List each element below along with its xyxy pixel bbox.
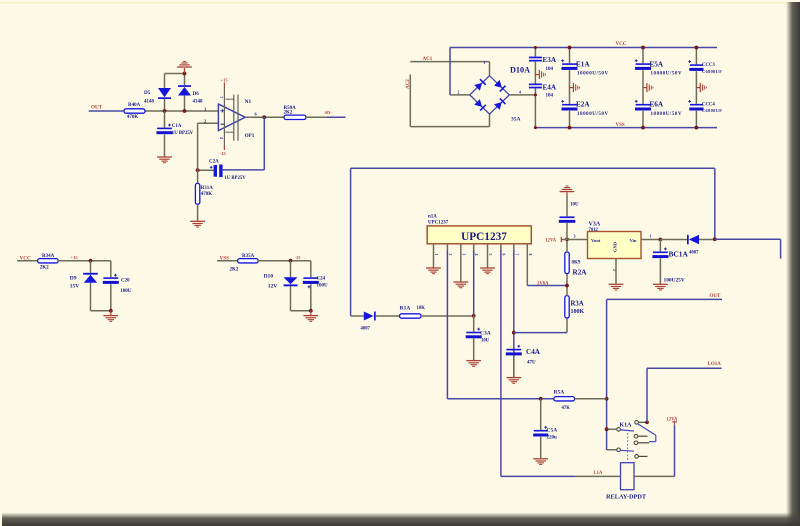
ground below R31A bbox=[190, 221, 205, 227]
svg-text:10000U/50V: 10000U/50V bbox=[577, 72, 609, 77]
svg-text:D6: D6 bbox=[193, 91, 200, 97]
svg-text:D9: D9 bbox=[70, 276, 77, 282]
net label VCC left bbox=[17, 255, 38, 261]
svg-text:GND: GND bbox=[613, 241, 618, 252]
resistor R34A 2K2 bbox=[38, 254, 59, 270]
svg-text:R1A: R1A bbox=[400, 306, 411, 312]
svg-text:220u: 220u bbox=[547, 436, 558, 441]
wire +15 node bbox=[58, 255, 111, 263]
svg-text:R34A: R34A bbox=[42, 254, 55, 259]
ground pin 5 bbox=[480, 250, 495, 274]
svg-text:+15: +15 bbox=[71, 255, 79, 260]
svg-text:C3A: C3A bbox=[480, 330, 491, 336]
svg-text:6: 6 bbox=[501, 254, 505, 256]
svg-text:1: 1 bbox=[484, 61, 486, 65]
svg-text:VSS: VSS bbox=[616, 123, 625, 128]
bridge output wires bbox=[450, 48, 535, 95]
wire coil right to 12VA bbox=[634, 425, 675, 476]
svg-text:10000U/50V: 10000U/50V bbox=[651, 112, 683, 117]
diode D 4007 input bbox=[351, 312, 400, 332]
wire bottom of D9 C20 bbox=[91, 309, 113, 315]
ground below C1A bbox=[157, 157, 172, 163]
svg-text:C6800UF: C6800UF bbox=[702, 69, 722, 74]
node diode junction wire right bbox=[713, 237, 781, 258]
svg-text:3: 3 bbox=[574, 234, 576, 239]
frame border bottom bbox=[2, 513, 800, 526]
capacitor C2A 1U BP25V bbox=[198, 160, 247, 181]
svg-text:LO1A: LO1A bbox=[708, 362, 722, 367]
ground below C20 bbox=[103, 316, 118, 322]
ground above diodes bbox=[177, 61, 192, 67]
svg-text:D5: D5 bbox=[144, 90, 151, 96]
svg-text:OUT: OUT bbox=[91, 104, 103, 110]
capacitor E5A 10000U/50V bbox=[635, 46, 682, 104]
wire pin 4 bbox=[473, 250, 475, 316]
wire pin 6 bbox=[500, 250, 502, 476]
node 1V6A junction bbox=[537, 274, 569, 296]
power -15 below op-amp bbox=[220, 146, 227, 156]
svg-text:7: 7 bbox=[514, 254, 518, 256]
ground below C5A bbox=[533, 459, 548, 465]
junction pin7 R3A bbox=[512, 318, 567, 335]
output net SD wire bbox=[306, 110, 346, 117]
svg-text:+15: +15 bbox=[221, 78, 229, 83]
svg-text:-15: -15 bbox=[220, 151, 227, 156]
svg-text:E4A: E4A bbox=[543, 83, 557, 91]
net label VSS left bbox=[217, 255, 238, 261]
wire -15 node bbox=[258, 255, 311, 263]
capacitor C1A 1U BP25V bbox=[157, 111, 194, 157]
svg-text:1V6A: 1V6A bbox=[537, 281, 549, 286]
ground pin 3 bbox=[453, 250, 468, 288]
diode D6 4148 bbox=[178, 74, 203, 112]
svg-text:2: 2 bbox=[612, 269, 616, 271]
capacitor CCC4 6800UF bbox=[688, 100, 722, 130]
wire pin 8 bbox=[527, 250, 567, 286]
svg-text:UPC1237: UPC1237 bbox=[428, 220, 449, 225]
net label OUT bbox=[91, 104, 103, 110]
ground below BC1A bbox=[653, 284, 668, 290]
svg-text:R35A: R35A bbox=[242, 254, 255, 259]
svg-text:35A: 35A bbox=[511, 116, 521, 122]
svg-text:4: 4 bbox=[474, 254, 478, 256]
junction node diodes bbox=[163, 109, 187, 113]
svg-text:R2A: R2A bbox=[573, 268, 588, 276]
pin 2 wire bbox=[198, 119, 219, 124]
svg-text:E3A: E3A bbox=[543, 56, 557, 64]
ground pin 1 bbox=[426, 250, 441, 274]
svg-text:10000U/50V: 10000U/50V bbox=[651, 72, 683, 77]
svg-text:1U BP25V: 1U BP25V bbox=[224, 176, 246, 181]
UPC1237 pin stubs bbox=[434, 244, 532, 256]
svg-text:1U BP25V: 1U BP25V bbox=[172, 131, 194, 136]
svg-text:100U: 100U bbox=[317, 283, 329, 288]
svg-text:4: 4 bbox=[519, 90, 521, 94]
svg-text:470K: 470K bbox=[127, 115, 138, 120]
ground below C24 bbox=[303, 316, 318, 322]
svg-text:470K: 470K bbox=[201, 192, 213, 197]
resistor R35A 2K2 bbox=[230, 254, 259, 273]
svg-text:7812: 7812 bbox=[589, 228, 599, 233]
wire pin 7 bbox=[513, 250, 515, 377]
op-amp power pin lines bbox=[219, 87, 238, 147]
svg-text:10U: 10U bbox=[481, 339, 490, 344]
relay L1A coil bbox=[606, 463, 647, 501]
svg-text:2K2: 2K2 bbox=[230, 268, 239, 273]
VCC rail bbox=[450, 42, 717, 48]
wire pin 2 to mute bbox=[446, 250, 448, 399]
svg-text:OP1: OP1 bbox=[245, 133, 255, 139]
capacitor E4A 104 bbox=[529, 83, 557, 129]
ground tee CCC3-CCC4 bbox=[696, 83, 706, 92]
resistor R40A 470K bbox=[124, 103, 145, 120]
power +15 to op-amp bbox=[221, 78, 229, 87]
svg-text:100K: 100K bbox=[571, 309, 585, 315]
node relay pole junction bbox=[645, 420, 649, 424]
ground pin 7812 bbox=[609, 259, 624, 291]
svg-text:15V: 15V bbox=[70, 284, 80, 290]
wire mute row bbox=[447, 397, 554, 401]
capacitor BC1A 100U25V bbox=[652, 240, 688, 284]
svg-text:47U: 47U bbox=[527, 361, 536, 366]
svg-text:100U25V: 100U25V bbox=[664, 277, 685, 283]
net AC2 wire bbox=[406, 75, 490, 127]
svg-text:2K2: 2K2 bbox=[40, 265, 49, 270]
wire loop top bbox=[351, 168, 715, 316]
VSS rail bbox=[536, 123, 717, 128]
svg-text:C4A: C4A bbox=[526, 348, 541, 356]
svg-text:10U: 10U bbox=[570, 203, 579, 208]
capacitor C24 100U bbox=[303, 261, 328, 311]
net AC1 wire bbox=[410, 57, 489, 75]
IC V3A 7812 regulator bbox=[588, 221, 642, 258]
resistor R1A 10K bbox=[400, 306, 476, 319]
net OUT wire right bbox=[605, 294, 722, 450]
ground below C3A bbox=[466, 361, 481, 367]
svg-text:C6800UF: C6800UF bbox=[702, 108, 722, 113]
svg-text:n1A: n1A bbox=[428, 214, 437, 219]
resistor R5A 47K bbox=[554, 389, 607, 411]
svg-text:BC1A: BC1A bbox=[669, 249, 689, 258]
svg-text:2: 2 bbox=[458, 90, 460, 94]
svg-text:4148: 4148 bbox=[193, 100, 204, 105]
svg-text:47K: 47K bbox=[562, 406, 571, 411]
svg-text:1: 1 bbox=[650, 234, 652, 239]
svg-text:E5A: E5A bbox=[650, 60, 664, 68]
svg-text:8K9: 8K9 bbox=[572, 261, 581, 266]
op-amp N1 OP1 bbox=[218, 99, 254, 139]
ground tee E3A-E4A bbox=[535, 70, 545, 79]
svg-text:K1A: K1A bbox=[620, 422, 633, 428]
svg-text:4148: 4148 bbox=[144, 100, 155, 105]
svg-text:4: 4 bbox=[219, 137, 223, 139]
svg-text:7: 7 bbox=[219, 97, 223, 99]
zener D9 15V bbox=[70, 261, 98, 311]
svg-text:R40A: R40A bbox=[128, 103, 141, 108]
svg-text:1: 1 bbox=[434, 254, 438, 256]
svg-text:V3A: V3A bbox=[589, 221, 601, 227]
feedback wire bbox=[223, 117, 265, 170]
zener D10 12V bbox=[264, 261, 298, 311]
svg-text:R31A: R31A bbox=[201, 186, 214, 191]
svg-text:C20: C20 bbox=[121, 279, 130, 284]
svg-text:R5A: R5A bbox=[554, 389, 565, 395]
net LO1A wire bbox=[647, 362, 722, 422]
svg-text:2: 2 bbox=[448, 254, 452, 256]
wire bottom of D10 C24 bbox=[291, 309, 313, 315]
svg-text:4007: 4007 bbox=[361, 327, 371, 332]
ground tee E5A-E6A bbox=[643, 83, 653, 92]
svg-text:UPC1237: UPC1237 bbox=[461, 231, 507, 243]
capacitor E3A 104 bbox=[529, 46, 557, 84]
svg-text:C2A: C2A bbox=[209, 160, 219, 165]
svg-text:-15: -15 bbox=[295, 255, 302, 260]
capacitor C5A 220u bbox=[533, 399, 557, 458]
svg-text:E1A: E1A bbox=[576, 60, 590, 68]
svg-text:Vout: Vout bbox=[591, 238, 601, 243]
svg-text:R3A: R3A bbox=[571, 300, 584, 307]
resistor R3A 100K bbox=[565, 296, 585, 318]
capacitor C3A 10U bbox=[466, 316, 491, 360]
svg-text:C5A: C5A bbox=[547, 428, 558, 434]
capacitor E1A 10000U/50V bbox=[561, 46, 608, 104]
pin 3 label bbox=[204, 106, 207, 111]
svg-text:10000U/50V: 10000U/50V bbox=[577, 112, 609, 117]
svg-text:12VA: 12VA bbox=[667, 418, 678, 423]
svg-text:2K2: 2K2 bbox=[284, 111, 293, 116]
ground above 10U bbox=[560, 186, 575, 192]
power 12VA at relay bbox=[667, 418, 678, 426]
svg-text:VCC: VCC bbox=[616, 42, 627, 47]
IC n1A UPC1237 bbox=[427, 214, 531, 243]
capacitor E6A 10000U/50V bbox=[635, 100, 682, 130]
capacitor C4A 47U bbox=[506, 345, 541, 377]
diode 4007 to Vin bbox=[660, 235, 714, 256]
svg-text:CCC4: CCC4 bbox=[702, 102, 715, 107]
svg-text:D10A: D10A bbox=[510, 66, 530, 75]
svg-text:Vin: Vin bbox=[630, 238, 637, 243]
svg-text:100U: 100U bbox=[120, 289, 132, 294]
svg-text:104: 104 bbox=[546, 94, 554, 99]
ground tee E1A-E2A bbox=[570, 83, 580, 92]
bridge rectifier D10A 35A bbox=[458, 61, 531, 122]
svg-text:5: 5 bbox=[488, 254, 492, 256]
svg-text:8: 8 bbox=[528, 254, 532, 256]
wire to ground above diodes bbox=[165, 68, 187, 75]
svg-text:C1A: C1A bbox=[172, 124, 182, 129]
svg-text:L1A: L1A bbox=[594, 471, 603, 476]
junction feedback node bbox=[196, 123, 200, 172]
svg-text:CCC3: CCC3 bbox=[702, 63, 715, 68]
svg-text:N1: N1 bbox=[245, 99, 252, 105]
svg-text:2: 2 bbox=[204, 119, 206, 124]
ground below C4A bbox=[506, 378, 521, 384]
svg-text:104: 104 bbox=[546, 67, 554, 72]
node 12VA junction bbox=[545, 234, 587, 252]
capacitor CCC3 6800UF bbox=[688, 46, 722, 104]
capacitor C20 100U bbox=[103, 261, 132, 311]
resistor R50A 2K2 bbox=[284, 106, 307, 120]
frame border right bbox=[786, 2, 800, 526]
svg-text:4007: 4007 bbox=[689, 251, 699, 256]
svg-text:12VA: 12VA bbox=[545, 239, 556, 244]
diode D5 4148 bbox=[144, 74, 171, 112]
wire 7812 Vin node bbox=[641, 234, 662, 242]
svg-text:E2A: E2A bbox=[576, 101, 590, 109]
svg-text:C24: C24 bbox=[317, 276, 326, 281]
svg-text:RELAY-DPDT: RELAY-DPDT bbox=[606, 494, 647, 501]
resistor R31A 470K bbox=[195, 170, 213, 221]
svg-text:SD-: SD- bbox=[325, 110, 333, 115]
svg-text:10K: 10K bbox=[417, 306, 426, 311]
svg-text:E6A: E6A bbox=[650, 101, 664, 109]
resistor R2A 8K9 bbox=[565, 252, 587, 276]
net OUT input wire bbox=[89, 110, 219, 112]
svg-text:OUT: OUT bbox=[710, 294, 722, 299]
wire coil left L1A bbox=[501, 471, 621, 476]
relay K1A contacts bbox=[607, 421, 656, 462]
svg-text:3: 3 bbox=[461, 254, 465, 256]
svg-text:D10: D10 bbox=[264, 274, 274, 280]
svg-text:12V: 12V bbox=[268, 284, 278, 290]
op-amp output wire pin 6 bbox=[245, 112, 284, 120]
capacitor 10U top bbox=[559, 192, 579, 239]
capacitor E2A 10000U/50V bbox=[561, 100, 608, 130]
